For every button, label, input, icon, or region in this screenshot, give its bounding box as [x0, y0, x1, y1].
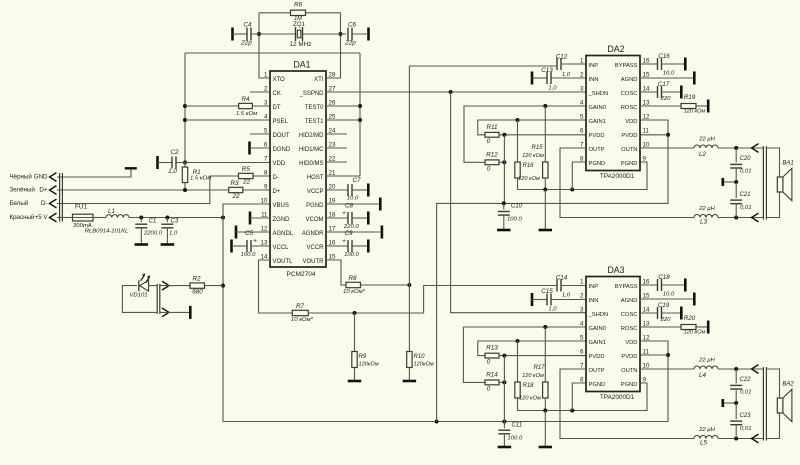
wire C19 right [662, 312, 682, 314]
svg-text:8: 8 [264, 169, 268, 176]
svg-text:10 кОм*: 10 кОм* [343, 289, 366, 295]
svg-text:R3: R3 [230, 180, 239, 187]
svg-text:12: 12 [643, 113, 650, 120]
svg-text:C7: C7 [352, 177, 361, 184]
wire C4 left lead [233, 33, 248, 35]
wire +5V down bus [221, 218, 670, 424]
svg-text:Зелёный: Зелёный [10, 187, 36, 194]
svg-text:R6: R6 [294, 2, 303, 9]
svg-text:4: 4 [580, 320, 584, 327]
svg-text:BYPASS: BYPASS [615, 284, 638, 290]
connector double line BA2 [763, 367, 766, 441]
wire VDD line DA2 [437, 120, 670, 422]
svg-text:6: 6 [580, 127, 584, 134]
ground bar PGND19 [379, 198, 382, 211]
svg-text:15: 15 [329, 253, 336, 260]
wire R20 right [696, 326, 708, 328]
svg-text:120 кОм: 120 кОм [519, 395, 541, 401]
svg-text:8: 8 [580, 155, 584, 162]
svg-text:22 µH: 22 µH [698, 427, 716, 433]
capacitor C5 [241, 230, 257, 258]
svg-text:OUTP: OUTP [589, 368, 605, 374]
svg-text:+: + [253, 238, 257, 245]
svg-text:XTI: XTI [314, 77, 324, 83]
svg-text:10: 10 [643, 362, 650, 369]
svg-text:14: 14 [643, 306, 650, 313]
wire C22 C23 ground tap [723, 401, 738, 405]
inductor L4 [694, 357, 718, 379]
wire C6 right lead [352, 33, 369, 35]
wire AGND DA3 [640, 298, 694, 300]
wire L3 to speaker [718, 216, 763, 220]
svg-text:PGND: PGND [589, 382, 606, 388]
svg-text:R15: R15 [531, 145, 543, 151]
connector arrow D- [50, 199, 57, 208]
svg-text:R10: R10 [414, 354, 426, 360]
svg-text:3: 3 [580, 85, 584, 92]
wire HID1 stub [326, 147, 347, 149]
svg-text:100.0: 100.0 [507, 217, 522, 223]
capacitor C13 [541, 67, 557, 92]
svg-text:ROSC: ROSC [621, 326, 638, 332]
svg-text:D-: D- [41, 200, 48, 207]
wire VDD tie left riser [183, 53, 187, 165]
svg-text:DOUT: DOUT [273, 133, 290, 139]
svg-text:TEST1: TEST1 [305, 119, 324, 125]
svg-text:OUTN: OUTN [621, 368, 637, 374]
svg-text:L5: L5 [700, 439, 708, 446]
svg-text:R13: R13 [486, 344, 498, 351]
svg-text:ROSC: ROSC [621, 105, 638, 111]
svg-text:22p: 22p [240, 40, 252, 47]
svg-text:AGND: AGND [621, 298, 638, 304]
svg-text:16: 16 [643, 278, 650, 285]
svg-text:R16: R16 [522, 163, 534, 169]
svg-text:R17: R17 [533, 365, 545, 371]
speaker BA2 [777, 381, 794, 421]
svg-text:ZQ1: ZQ1 [293, 22, 305, 28]
wire R17 ground lead [544, 411, 546, 447]
ground bar DGND [248, 142, 251, 155]
capacitor C1 [135, 217, 162, 243]
svg-text:HID1/MC: HID1/MC [299, 147, 324, 153]
svg-text:13: 13 [643, 320, 650, 327]
resistor R14 [485, 372, 499, 393]
wire C13 to INN [551, 77, 586, 79]
svg-text:DGND: DGND [273, 147, 291, 153]
ground bar C16 [684, 58, 687, 71]
svg-text:9: 9 [264, 183, 268, 190]
svg-text:1,0: 1,0 [562, 293, 571, 299]
svg-text:PGND: PGND [621, 382, 638, 388]
wire C4 to ZQ1 [251, 33, 296, 35]
wire OUTN DA3 [640, 368, 694, 370]
ground bar ZGND [249, 212, 252, 225]
ground bar R19 [707, 100, 710, 113]
svg-text:DA3: DA3 [607, 265, 624, 275]
resistor R12 [485, 152, 499, 173]
wire AGNDL [236, 231, 270, 233]
svg-text:3: 3 [264, 99, 268, 106]
svg-text:Белый: Белый [10, 200, 29, 207]
wire HID2 stub [326, 133, 347, 135]
wire XTO riser [257, 13, 270, 78]
ground bar LED [189, 306, 192, 319]
svg-text:14: 14 [643, 85, 650, 92]
fuse FU1 [73, 204, 94, 229]
resistor R20 [681, 315, 706, 336]
capacitor C8 [326, 202, 368, 230]
svg-text:INN: INN [589, 298, 599, 304]
wire GAIN0 DA2 [464, 104, 586, 162]
svg-text:7: 7 [264, 155, 268, 162]
capacitor C18 [658, 274, 675, 298]
svg-text:INN: INN [589, 77, 599, 83]
svg-text:C12: C12 [556, 54, 568, 61]
svg-text:C11: C11 [512, 423, 523, 429]
ground bar R9 [348, 380, 362, 383]
svg-text:VCCP: VCCP [307, 189, 324, 195]
svg-text:18: 18 [329, 211, 336, 218]
svg-text:INP: INP [589, 284, 599, 290]
svg-text:5: 5 [580, 334, 584, 341]
wire VDD row [176, 162, 270, 164]
wire COSC lead DA2 [640, 91, 658, 93]
svg-text:20: 20 [329, 183, 336, 190]
svg-text:1,0: 1,0 [562, 72, 571, 78]
connector pin GND label [10, 174, 49, 181]
svg-text:1,0: 1,0 [548, 86, 557, 92]
svg-text:_SHDN: _SHDN [588, 312, 609, 318]
svg-text:C5: C5 [245, 230, 254, 237]
svg-text:GND: GND [34, 174, 48, 181]
svg-text:10,0: 10,0 [663, 70, 675, 76]
capacitor C12 [556, 54, 571, 79]
ground bar speaker mid BA1 [721, 178, 724, 186]
svg-text:C20: C20 [740, 156, 752, 162]
svg-text:VOUTR: VOUTR [303, 259, 325, 265]
svg-text:3: 3 [580, 306, 584, 313]
svg-text:5: 5 [264, 127, 268, 134]
svg-text:C16: C16 [658, 53, 670, 60]
svg-text:9: 9 [643, 155, 647, 162]
wire CK stub [250, 91, 270, 93]
svg-text:11: 11 [643, 348, 650, 355]
svg-text:GAIN1: GAIN1 [589, 340, 606, 346]
svg-text:PVDD: PVDD [621, 133, 637, 139]
svg-text:13: 13 [261, 239, 268, 246]
svg-text:VD101: VD101 [129, 292, 147, 298]
wire C15 left lead [532, 299, 547, 301]
capacitor C7 [347, 177, 361, 202]
svg-text:Красный: Красный [10, 214, 35, 221]
svg-text:PGND: PGND [589, 161, 606, 167]
svg-text:0,01: 0,01 [740, 205, 751, 211]
ground bar C2 [156, 156, 159, 169]
svg-text:10: 10 [643, 141, 650, 148]
svg-text:VDD: VDD [625, 119, 637, 125]
svg-text:DA1: DA1 [293, 60, 310, 70]
svg-text:R2: R2 [192, 276, 201, 283]
wire R14 out [499, 380, 506, 384]
svg-text:C13: C13 [541, 67, 553, 74]
svg-text:CK: CK [273, 91, 281, 97]
svg-text:R9: R9 [359, 354, 367, 360]
ground bar AGNDL [235, 226, 238, 239]
IC DA3 TPA2000D1 [580, 265, 650, 401]
svg-text:22 µH: 22 µH [698, 357, 716, 363]
svg-text:25: 25 [329, 113, 336, 120]
wire C17 right [662, 91, 682, 93]
wire GAIN1 DA2 [478, 118, 586, 135]
svg-text:22: 22 [329, 155, 336, 162]
wire GND connector lead [57, 170, 131, 178]
ground bar C9 [367, 240, 370, 253]
svg-text:1: 1 [580, 57, 584, 64]
chassis ground symbol [125, 167, 137, 169]
ground bar C19 [680, 307, 683, 320]
wire PGND8 drop DA2 [572, 162, 586, 190]
svg-text:C6: C6 [348, 22, 357, 29]
svg-text:TPA2000D1: TPA2000D1 [600, 394, 635, 401]
svg-text:120 кОм: 120 кОм [522, 373, 544, 379]
wire BA1 loop [766, 148, 779, 218]
svg-text:R8: R8 [348, 275, 357, 282]
capacitor C2 [168, 149, 179, 175]
capacitor C10 [498, 203, 523, 229]
svg-text:7: 7 [580, 362, 584, 369]
wire ZGND [250, 217, 270, 219]
capacitor C9 [326, 230, 368, 258]
svg-text:GAIN0: GAIN0 [589, 326, 606, 332]
svg-text:COSC: COSC [621, 91, 638, 97]
resistor R18 [515, 341, 541, 411]
ground bar C15 [531, 293, 534, 306]
svg-text:680: 680 [192, 288, 203, 295]
inductor L3 [694, 206, 718, 225]
wire VDD branch vert DA3 [503, 356, 505, 422]
crystal ZQ1 [290, 22, 312, 48]
svg-text:C10: C10 [511, 203, 523, 209]
ground bar C3 [161, 243, 175, 246]
resistor R8 [343, 275, 366, 295]
svg-text:HOST: HOST [307, 175, 324, 181]
wire PVDD row DA2 [499, 133, 586, 137]
wire GAIN0 DA3 [463, 325, 586, 382]
svg-text:1,0: 1,0 [169, 230, 178, 236]
resistor R17 [522, 327, 548, 411]
svg-text:1: 1 [264, 71, 268, 78]
ground bar AGND DA2 [693, 72, 696, 85]
wire VOUTL to R7 [259, 260, 293, 313]
wire HID0 stub [326, 161, 347, 163]
svg-text:R11: R11 [486, 124, 497, 131]
svg-text:+: + [342, 210, 346, 217]
svg-text:PCM2704: PCM2704 [287, 271, 316, 278]
wire COSC lead DA3 [640, 312, 658, 314]
svg-text:17: 17 [329, 225, 336, 232]
svg-text:C23: C23 [740, 413, 752, 419]
svg-text:12: 12 [643, 334, 650, 341]
resistor R10 [407, 352, 434, 381]
connector arrow BA1 bottom [752, 213, 759, 222]
resistor R11 [485, 124, 499, 145]
wire PGND bus DA3 [518, 383, 648, 413]
wire L2 to speaker [718, 146, 763, 150]
LED emission arrows [141, 273, 151, 283]
svg-text:BYPASS: BYPASS [615, 63, 638, 69]
svg-text:22: 22 [231, 193, 240, 200]
wire +5V rail [129, 216, 225, 220]
svg-text:RLB0914-101KL: RLB0914-101KL [85, 228, 129, 234]
svg-text:VDD: VDD [273, 161, 286, 167]
svg-text:C21: C21 [740, 192, 751, 198]
svg-text:15: 15 [643, 71, 650, 78]
svg-text:22p: 22p [344, 40, 356, 47]
svg-text:C9: C9 [344, 230, 353, 237]
capacitor C14 [556, 275, 571, 299]
svg-text:10 кОм*: 10 кОм* [291, 317, 314, 323]
svg-text:21: 21 [329, 169, 336, 176]
resistor R9 [352, 313, 379, 380]
connector arrow BA2 top [752, 365, 759, 374]
svg-text:C1: C1 [149, 217, 157, 224]
svg-text:INP: INP [589, 63, 599, 69]
svg-text:28: 28 [329, 71, 336, 78]
wire PSEL row [185, 119, 270, 121]
svg-text:FU1: FU1 [75, 204, 87, 211]
svg-text:C19: C19 [658, 302, 670, 309]
svg-text:0,01: 0,01 [740, 426, 751, 432]
wire LED to R2 [160, 285, 190, 287]
svg-text:C14: C14 [556, 275, 568, 282]
svg-text:C4: C4 [243, 22, 252, 29]
svg-text:120 кОм: 120 кОм [522, 153, 544, 159]
part number RLB0914-101KL [85, 228, 129, 234]
wire OUTN DA2 [640, 147, 694, 149]
svg-text:D-: D- [273, 175, 279, 181]
svg-text:220: 220 [660, 96, 672, 102]
svg-text:11: 11 [261, 211, 268, 218]
svg-text:11: 11 [643, 127, 650, 134]
svg-text:6: 6 [580, 348, 584, 355]
wire C14 to INP DA3 [561, 285, 586, 287]
ground bar R10 [403, 380, 417, 383]
svg-text:L3: L3 [700, 218, 708, 225]
svg-text:VOUTL: VOUTL [273, 259, 294, 265]
svg-text:6: 6 [264, 141, 268, 148]
ground bar R17 [539, 446, 553, 449]
svg-text:HID0/MS: HID0/MS [299, 161, 323, 167]
wire R8 out [361, 283, 412, 287]
svg-text:VCCL: VCCL [273, 245, 290, 251]
svg-text:1M: 1M [294, 16, 302, 22]
resistor R2 [190, 276, 205, 296]
wire ROSC lead DA3 [640, 326, 681, 328]
svg-text:+5 V: +5 V [35, 214, 49, 221]
wire DT row [185, 105, 270, 107]
svg-text:100.0: 100.0 [344, 252, 359, 258]
svg-text:GAIN1: GAIN1 [589, 119, 606, 125]
wire R15 ground lead [544, 190, 546, 230]
svg-text:_SHDN: _SHDN [588, 91, 609, 97]
inductor L5 [694, 427, 718, 446]
svg-text:22 µH: 22 µH [698, 136, 716, 142]
svg-text:0: 0 [487, 138, 491, 145]
svg-text:16: 16 [329, 239, 336, 246]
wire R19 right [696, 105, 708, 107]
svg-text:2: 2 [580, 292, 584, 299]
connector double line BA1 [763, 146, 766, 220]
svg-text:VDD: VDD [625, 340, 637, 346]
capacitor C20 [730, 148, 751, 182]
svg-text:PGND: PGND [306, 203, 324, 209]
wire C15 to INN DA3 [551, 299, 586, 301]
svg-text:100.0: 100.0 [241, 252, 256, 258]
svg-text:9: 9 [643, 376, 647, 383]
svg-text:8: 8 [580, 376, 584, 383]
svg-text:22: 22 [242, 178, 251, 185]
svg-text:GAIN0: GAIN0 [589, 105, 606, 111]
ground bar right of C6 [367, 28, 370, 41]
resistor R4 [236, 96, 257, 117]
wire L4 to speaker [718, 367, 763, 371]
capacitor C16 [658, 53, 675, 77]
wire LED cathode to ground [160, 311, 190, 313]
svg-text:22 µH: 22 µH [698, 206, 716, 212]
connector arrow BA2 bottom [752, 434, 759, 443]
wire HOST link [326, 175, 360, 177]
ground bar R15 [539, 229, 553, 232]
svg-text:BA2: BA2 [782, 381, 794, 387]
IC DA1 PCM2704 [261, 60, 336, 279]
wire TEST0 link [326, 105, 360, 107]
svg-text:1: 1 [580, 278, 584, 285]
wire ZQ1 to C6 [303, 33, 347, 35]
resistor R19 [681, 94, 706, 115]
connector cable boundary [60, 173, 63, 222]
capacitor C22 [730, 369, 751, 403]
wire VCCP lead [326, 189, 348, 191]
svg-text:C2: C2 [170, 149, 179, 156]
wire TEST/HOST riser [358, 53, 362, 176]
svg-text:12 MHz: 12 MHz [290, 41, 312, 48]
svg-text:D+: D+ [39, 187, 47, 194]
ground bar C17 [680, 86, 683, 99]
svg-text:0: 0 [487, 165, 491, 172]
inductor L1 [106, 208, 129, 217]
connector arrow BA1 top [752, 144, 759, 153]
connector pin D- label [10, 200, 48, 207]
ground bar C13 [531, 72, 534, 85]
svg-text:2: 2 [580, 71, 584, 78]
ground bar C1 [135, 243, 149, 246]
svg-text:100.0: 100.0 [508, 435, 523, 441]
wire DGND [250, 147, 271, 149]
ground bar C10 [497, 229, 511, 232]
svg-text:TEST0: TEST0 [305, 105, 324, 111]
svg-text:23: 23 [329, 141, 336, 148]
svg-text:24: 24 [329, 127, 336, 134]
wire SSPND row [326, 90, 586, 94]
connector arrow LED cathode [162, 308, 169, 317]
capacitor C3 [161, 217, 179, 243]
wire L5 to speaker [718, 437, 763, 441]
svg-text:19: 19 [329, 197, 336, 204]
wire C18 right [662, 284, 686, 286]
svg-text:R18: R18 [522, 383, 534, 389]
wire VOUTR to R8 [326, 260, 346, 285]
